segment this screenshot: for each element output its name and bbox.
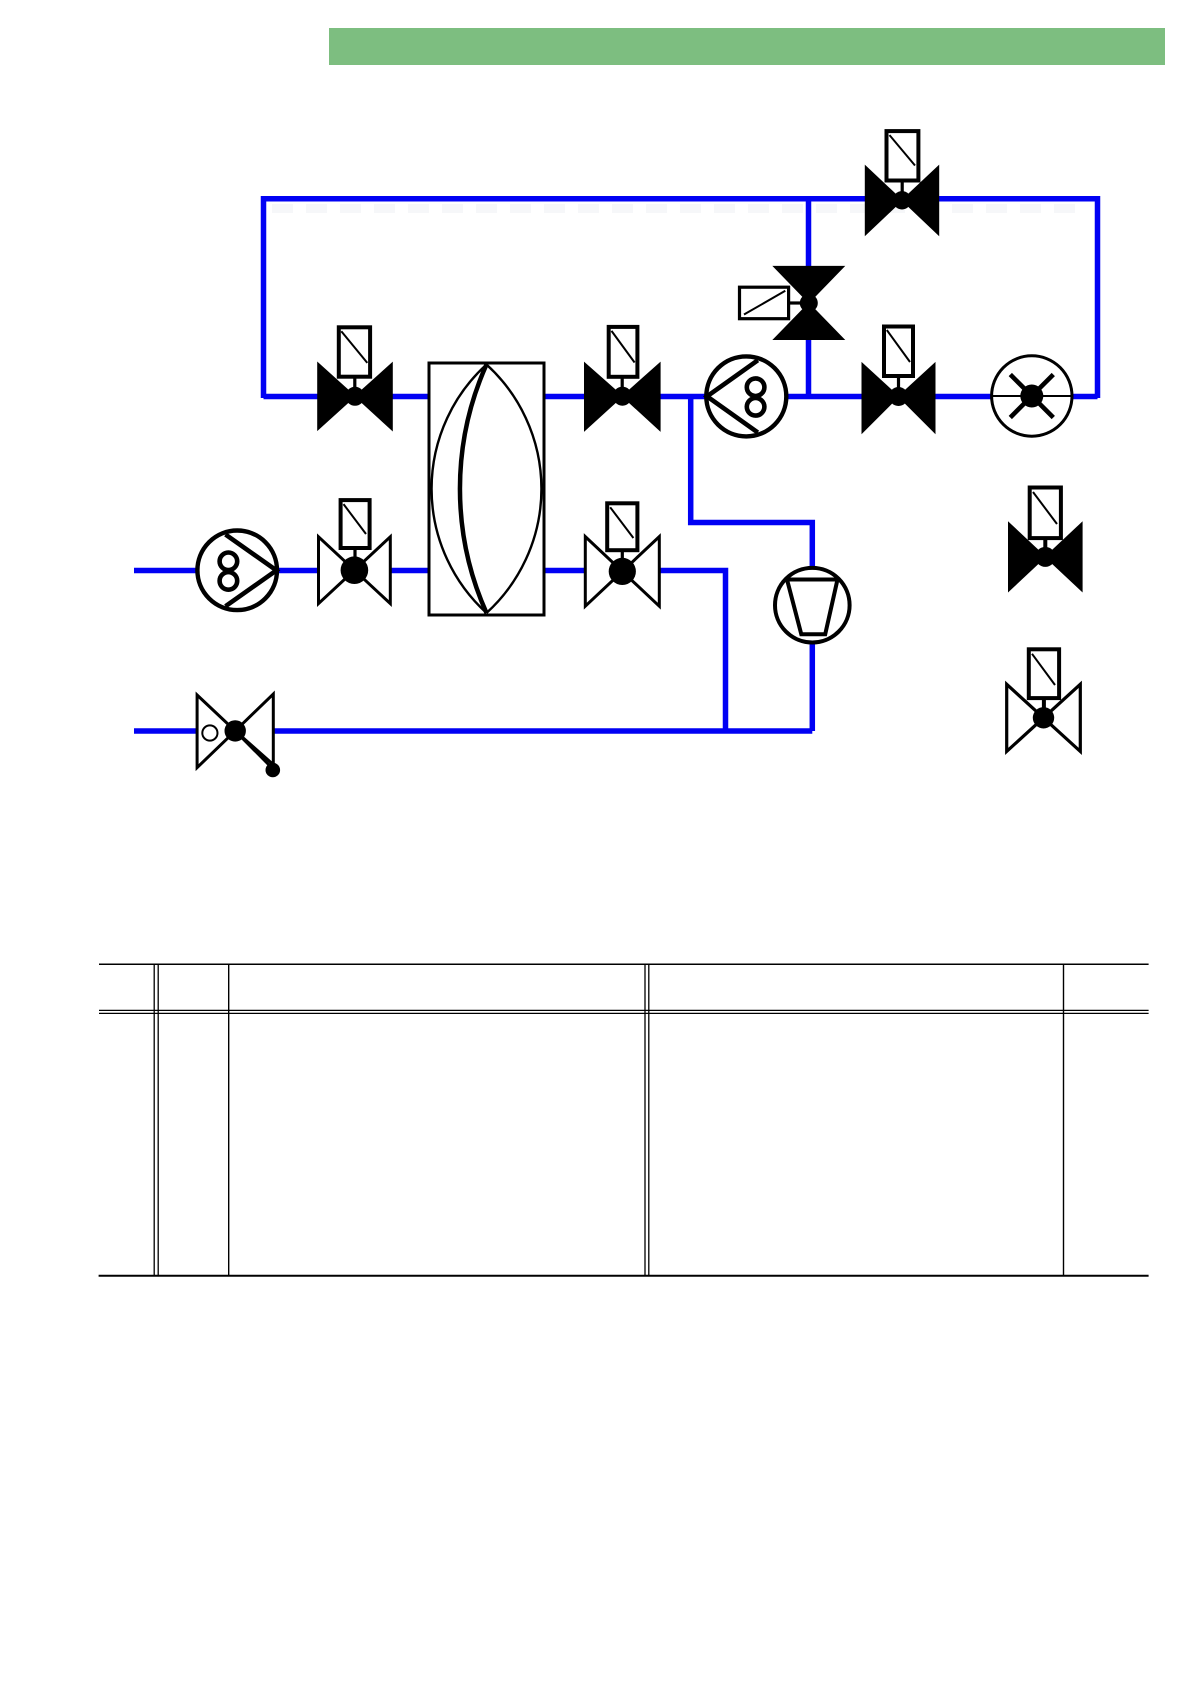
table vertical rule 4 (1063, 964, 1065, 1275)
pipe: row2 right segment turning down (544, 571, 726, 732)
drain/safety valve on row3 (197, 694, 280, 777)
valve V3 (motorized, open/white) on row2 (319, 500, 391, 603)
pipe: row1 left segment (264, 394, 430, 400)
valve V4 (motorized, open/white) on row2 right of HX (585, 503, 659, 606)
pump P2 (circulator, 8) on row1 (706, 356, 786, 436)
pipe: drop from top line at x808 (806, 199, 812, 397)
table bottom border (99, 1275, 1149, 1277)
valve V5 (motorized, black) on top line (865, 131, 938, 235)
heat exchanger HX (429, 363, 544, 615)
pipe: row1 right segment (544, 394, 1098, 400)
expansion device pump (trapezoid) (775, 568, 850, 643)
pump P1 (circulator, 8) on row2 left (197, 531, 277, 611)
table vertical double rule 1 (153, 964, 155, 1275)
valve V1 (motorized, closed/black) on row1 left (318, 327, 393, 430)
legend valve A (motorized, black, standalone) (1009, 488, 1083, 592)
table vertical double rule 3 (644, 964, 646, 1275)
valve V2 (motorized, black) on row1 right of HX (585, 327, 661, 431)
pipe: branch row1 down to secondary pump (691, 397, 813, 732)
shut-off valve with cross (circle-X) on row1 (992, 356, 1072, 436)
valve V6 (motorized, black) on row1 far right (862, 327, 935, 434)
table top border (99, 963, 1149, 965)
pipe: row3 bottom line (134, 728, 812, 734)
3-way valve (black, vertical) on drop x808 (740, 266, 845, 339)
table header double rule (99, 1009, 1149, 1011)
legend valve B (motorized, white, standalone) (1007, 649, 1081, 751)
pipe: upper loop (264, 199, 1098, 398)
table vertical rule 2 (228, 964, 230, 1275)
pipe: row2 left segment (134, 568, 429, 574)
green title bar (329, 28, 1165, 65)
faint dashed remnant under top pipe (272, 204, 1085, 213)
